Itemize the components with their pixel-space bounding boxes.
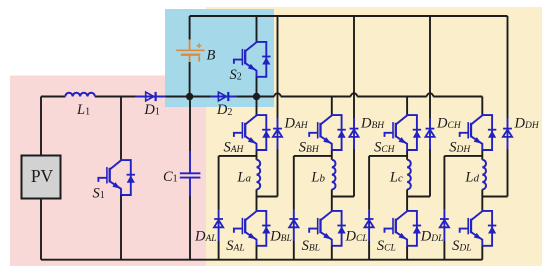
diode DAH [273,116,309,137]
diode DDH [503,116,540,137]
wire SAH emitter [256,151,258,160]
inductor La [236,160,260,190]
wire SCL emitter [406,246,408,259]
transistor SDL [452,210,496,254]
transistor S2 [230,41,271,83]
wire node C2 [407,196,430,198]
wire SCH emitter [406,151,408,160]
wire S1 emitter [120,195,122,260]
PV source [22,156,61,199]
wire DBL vertical [293,156,295,260]
inductor Lb [310,160,335,190]
wire crossover hop 3 on mid rail [427,93,433,96]
wire DCL vertical [368,156,370,260]
wire top bus rail [190,15,508,17]
wire S2 collector [256,16,258,41]
wire battery bottom lead [189,62,191,97]
transistor SBH [299,114,346,155]
wire DCH vertical [429,16,431,197]
diode DBL [269,219,298,244]
wire node D2 [482,196,507,198]
diode D1 [135,92,166,118]
wire PV negative lead [40,199,42,260]
wire SCH collector [406,97,408,115]
wire SBL emitter [331,246,333,259]
wire SBH emitter [331,151,333,160]
wire SDH collector [481,97,483,115]
wire node C1 [369,155,407,157]
transistor SBL [302,210,346,254]
capacitor C1 [163,169,200,185]
wire crossover hop 1 on mid rail [274,93,280,96]
inductor Lc [389,160,411,190]
inductor L1 [65,93,95,118]
svg-text:B: B [207,48,216,64]
SRM asymmetric half-bridge region (yellow background) [206,7,542,266]
svg-text:PV: PV [31,166,54,186]
diode D2 [211,92,237,118]
wire SAH collector [256,97,258,115]
wire DAL vertical [218,156,220,260]
wire node B1 [294,155,332,157]
transistor SAL [226,210,270,254]
battery B [176,40,215,64]
wire C1 bottom lead [189,178,191,260]
transistor SCH [374,114,421,155]
wire Ld bottom [481,189,483,210]
svg-text:Lb: Lb [310,170,325,186]
wire PV positive lead [40,97,42,156]
wire Lb bottom [331,189,333,210]
wire node B2 [332,196,354,198]
wire SDL emitter [481,246,483,259]
PV boost converter region (pink background) [10,76,208,267]
wire node D1 [444,155,482,157]
wire La bottom [256,189,258,210]
wire crossover hop 2 on mid rail [351,93,357,96]
transistor SAH [224,114,271,155]
battery branch region (light blue background) [165,9,274,107]
transistor SDH [449,114,496,155]
inductor Ld [464,160,486,190]
diode DCH [425,116,461,137]
transistor SCL [377,210,421,254]
wire mid DC-link rail [41,96,482,98]
wire SAL emitter [256,246,258,259]
wire battery top lead [189,16,191,40]
diode DBH [349,116,385,137]
wire bottom return rail [41,259,482,261]
svg-text:Ld: Ld [464,170,479,186]
wire SBH collector [331,97,333,115]
diode DAL [194,219,223,244]
wire DDL vertical [443,156,445,260]
wire DAH vertical [277,16,279,197]
transistor S1 [93,159,136,202]
diode DDL [420,219,449,244]
wire node A1 [219,155,257,157]
wire SDH emitter [481,151,483,160]
wire DBH vertical [353,16,355,197]
wire S2 emitter [256,77,258,96]
node S2 junction [253,93,260,100]
wire C1 top lead [189,97,191,174]
wire S1 collector [120,97,122,160]
wire Lc bottom [406,189,408,210]
svg-text:La: La [236,170,251,186]
diode DCL [345,219,374,244]
node battery junction [186,93,193,100]
wire DDH vertical [507,16,509,197]
svg-text:Lc: Lc [389,170,403,186]
wire node A2 [257,196,278,198]
